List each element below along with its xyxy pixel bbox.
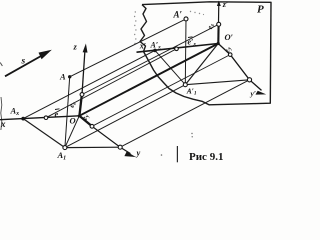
axis y' with arrowhead [218, 44, 266, 95]
segment A to A1 [65, 77, 70, 148]
segment A1 to y-node [65, 146, 120, 148]
origin O' junction dot [217, 42, 220, 45]
axis z' with arrowhead [217, 1, 221, 44]
svg-text:x: x [0, 119, 6, 129]
point A (dot) [68, 75, 71, 78]
segment A'1 to y'-node [185, 80, 249, 85]
svg-text:e′x: e′x [188, 38, 197, 48]
svg-text:A′: A′ [173, 10, 183, 20]
plane P outline (torn-edge quadrilateral) [140, 2, 271, 105]
segment O to A1 [65, 116, 79, 148]
svg-text:z: z [73, 42, 78, 52]
label ez (rotated) [67, 100, 78, 108]
dotted scan trail left of torn edge [134, 11, 137, 44]
colon artifact above caption [191, 133, 193, 138]
left page-edge artifact [0, 97, 3, 130]
projection ray ey to e'y [92, 55, 230, 127]
origin O junction dot [78, 114, 81, 117]
segment O' to A'1 [185, 44, 218, 85]
label e'z (rotated) [205, 22, 216, 30]
svg-text:Рис 9.1: Рис 9.1 [189, 151, 223, 163]
unit point e'z (circle) [217, 22, 221, 26]
svg-text:O′: O′ [225, 32, 234, 42]
svg-text:P: P [257, 4, 264, 16]
axis x' [137, 44, 219, 53]
point A'x (dot) [153, 49, 157, 53]
axis y with arrowhead [79, 116, 136, 157]
label ex [55, 109, 60, 119]
arrow s (projection direction) [5, 50, 52, 77]
caption separator bar [176, 146, 178, 162]
svg-text:Ax: Ax [10, 106, 20, 118]
label e'x [188, 37, 197, 48]
unit point ex (circle) [44, 116, 48, 120]
svg-text:y′: y′ [250, 89, 256, 98]
svg-text:A: A [59, 72, 66, 82]
unit point e'y (circle) [228, 53, 232, 57]
segment Ax to A1 [23, 119, 65, 148]
projection ray ez to e'z [82, 24, 219, 94]
unit point ez (circle) [80, 93, 84, 97]
y-node (circle) [118, 145, 122, 149]
svg-text:s: s [21, 57, 26, 67]
projection ray A1 to A'1 [65, 85, 185, 148]
svg-text:z′: z′ [222, 0, 228, 9]
label e'y (rotated) [222, 46, 233, 54]
svg-text:e: e [55, 109, 59, 119]
point Ax (dot) [21, 117, 25, 121]
svg-text:A′x: A′x [150, 41, 162, 51]
svg-text:A1: A1 [57, 150, 67, 162]
svg-text:ey: ey [222, 46, 233, 54]
projection ray A to A' [70, 19, 186, 77]
segment A'x to A'1 [155, 50, 185, 84]
y'-node (circle) [247, 78, 251, 82]
unit point e'x (circle) [175, 47, 179, 51]
small left-edge mark [0, 63, 2, 67]
projection ray y-node to y'-node [120, 80, 249, 147]
projection ray O to O' (thick) [79, 44, 218, 116]
svg-text:A′1: A′1 [186, 87, 197, 97]
svg-text:O: O [70, 116, 76, 126]
label ey (rotated) [80, 113, 91, 121]
scan speckles right of A' label [190, 11, 204, 15]
axis z with arrowhead [79, 44, 87, 116]
segment A' to A'1 [184, 19, 187, 85]
point A' (circle) [184, 17, 188, 21]
svg-text:y: y [136, 148, 141, 158]
svg-text:x′: x′ [139, 42, 146, 51]
projection ray ex to e'x [46, 49, 177, 118]
small speck left of caption bar [161, 154, 163, 156]
point A1 (circle) [63, 146, 67, 150]
point A'1 (circle) [183, 83, 187, 87]
axis x [0, 116, 79, 120]
svg-text:ez: ez [205, 22, 216, 30]
projection ray Ax to A'x [23, 50, 155, 118]
unit point ey (circle) [90, 124, 94, 128]
